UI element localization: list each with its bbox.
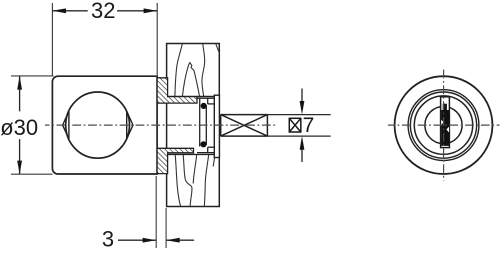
front view circles xyxy=(395,76,493,174)
cam left tip xyxy=(63,111,69,139)
keyway outline xyxy=(441,97,450,148)
svg-text:ø30: ø30 xyxy=(0,115,38,140)
wood panel outline xyxy=(167,44,220,207)
dim dia30 arrows xyxy=(17,76,22,90)
square symbol xyxy=(289,118,301,132)
svg-text:3: 3 xyxy=(102,226,114,251)
dim 3 line xyxy=(118,239,194,241)
wood grain top section xyxy=(175,44,219,96)
cam right tip xyxy=(127,111,133,139)
wood grain bottom section xyxy=(175,154,215,206)
front view centerline horizontal xyxy=(388,124,500,126)
flange bottom hatched xyxy=(157,148,193,173)
neck top detail xyxy=(197,98,214,146)
dim 3 arrows xyxy=(143,238,157,243)
dim 3 extension lines xyxy=(156,176,166,248)
cam circle xyxy=(66,92,130,158)
keyway notches xyxy=(441,120,444,125)
centerline left view xyxy=(45,124,276,126)
back washer xyxy=(214,95,219,157)
o-ring top xyxy=(201,103,207,109)
dim dia30 line xyxy=(19,76,21,174)
dim 32 arrows xyxy=(52,8,66,13)
spindle square xyxy=(221,115,268,137)
flange top hatched xyxy=(157,78,197,103)
front view centerline vertical xyxy=(443,70,445,181)
dim square7 extension lines xyxy=(267,115,330,137)
dim square7 arrows xyxy=(301,89,303,163)
svg-text:32: 32 xyxy=(91,0,115,23)
panel hole edges xyxy=(167,96,215,154)
dim 32 extension lines xyxy=(52,3,157,77)
dim 32 line xyxy=(52,10,157,12)
lock body xyxy=(52,76,157,174)
dim dia30 extension lines xyxy=(11,76,54,174)
svg-text:7: 7 xyxy=(303,114,315,137)
o-ring bottom xyxy=(200,141,206,147)
keyway black xyxy=(441,104,449,146)
neck bottom detail xyxy=(197,147,214,152)
